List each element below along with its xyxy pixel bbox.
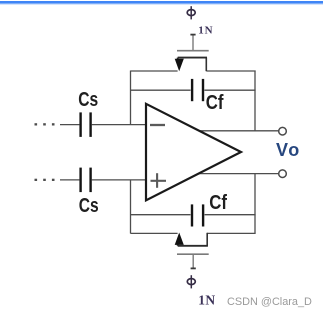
svg-text:Cf: Cf <box>209 190 227 213</box>
svg-text:CSDN @Clara_D: CSDN @Clara_D <box>227 296 312 308</box>
svg-text:1N: 1N <box>198 25 213 37</box>
svg-text:Cf: Cf <box>206 91 224 114</box>
svg-text:Cs: Cs <box>79 194 99 216</box>
svg-text:Vo: Vo <box>276 140 301 160</box>
svg-text:Cs: Cs <box>78 88 98 110</box>
svg-text:1N: 1N <box>198 292 215 307</box>
